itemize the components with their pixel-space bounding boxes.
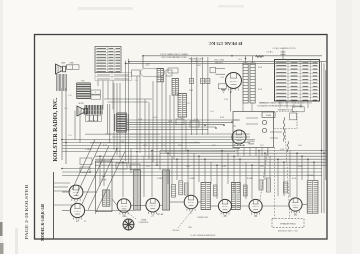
svg-text:TRANS: TRANS: [248, 143, 255, 146]
svg-text:ADJ 600 KC: ADJ 600 KC: [191, 60, 202, 63]
svg-text:SPEAKER PLUG: SPEAKER PLUG: [278, 108, 293, 111]
svg-text:8 MFD: 8 MFD: [247, 178, 254, 180]
svg-text:.1 MFD: .1 MFD: [85, 149, 92, 151]
svg-text:1ST AF: 1ST AF: [157, 213, 164, 216]
svg-text:R.F.: R.F.: [81, 81, 85, 83]
svg-text:VOLTAGE TABLE TAKEN WITH SET A: VOLTAGE TABLE TAKEN WITH SET ANALYZER PL…: [260, 102, 312, 105]
svg-text:PAGE 2-10 KOLSTER: PAGE 2-10 KOLSTER: [24, 183, 29, 239]
svg-text:CHOKE: CHOKE: [306, 175, 314, 177]
svg-text:GND: GND: [69, 62, 74, 64]
svg-text:CONT: CONT: [101, 180, 107, 182]
svg-text:2 MFD: 2 MFD: [157, 178, 164, 180]
svg-text:SPEAKER FIELD: SPEAKER FIELD: [280, 223, 296, 226]
svg-text:KOLSTER RADIO, INC.: KOLSTER RADIO, INC.: [53, 97, 59, 161]
svg-text:25M: 25M: [178, 145, 182, 147]
svg-text:OSC COND PADDING COND: OSC COND PADDING COND: [161, 56, 187, 59]
svg-text:CONTROL: CONTROL: [139, 222, 150, 224]
svg-text:K-140 CHASSIS AMENDED: K-140 CHASSIS AMENDED: [190, 234, 216, 237]
svg-text:PUSH PULL: PUSH PULL: [197, 217, 209, 219]
svg-text:IF PEAK 175 KC: IF PEAK 175 KC: [209, 41, 243, 46]
svg-text:5 V A.C. HEATER VOLTS: 5 V A.C. HEATER VOLTS: [273, 47, 296, 50]
svg-text:GN BK RD YL: GN BK RD YL: [88, 121, 99, 123]
svg-text:PADDING COND: PADDING COND: [189, 58, 204, 61]
svg-text:1 MFD: 1 MFD: [189, 178, 196, 180]
svg-text:MODEL K-140,K-148: MODEL K-140,K-148: [40, 203, 45, 241]
svg-text:PAD ADJ: PAD ADJ: [215, 61, 223, 64]
svg-text:SPKR: SPKR: [78, 103, 84, 105]
svg-text:OSC: OSC: [197, 65, 202, 67]
svg-text:TONE: TONE: [141, 220, 147, 222]
svg-text:5 V A.C.: 5 V A.C.: [266, 50, 274, 53]
svg-text:SW: SW: [188, 227, 191, 229]
svg-text:PHONO: PHONO: [173, 230, 180, 232]
svg-text:AMENDED MAY 1 1931: AMENDED MAY 1 1931: [278, 230, 298, 233]
svg-text:FUSE: FUSE: [266, 115, 272, 117]
svg-text:NOTE:: NOTE:: [259, 103, 266, 105]
